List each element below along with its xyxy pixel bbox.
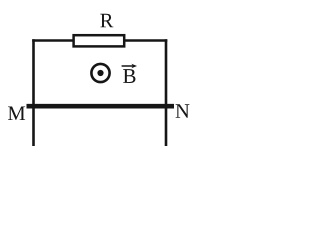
label R (100, 14, 113, 27)
resistor R (box) (74, 35, 125, 46)
field symbol B out of page: circle (91, 64, 109, 82)
field symbol: center dot (97, 70, 103, 76)
label vector B: letter B (123, 69, 135, 83)
label vector B: arrow shaft (122, 65, 135, 67)
wire: top-right horizontal from resistor to right rail (123, 39, 167, 42)
rod MN (thick conducting bar) (27, 104, 175, 109)
wire: top-left horizontal from left rail to resistor (32, 39, 75, 42)
wire: left rail vertical (M side) (32, 39, 35, 146)
label M (8, 107, 25, 120)
label vector B: arrow head (131, 64, 137, 69)
wire: right rail vertical (N side) (165, 39, 168, 146)
label N (176, 104, 190, 117)
